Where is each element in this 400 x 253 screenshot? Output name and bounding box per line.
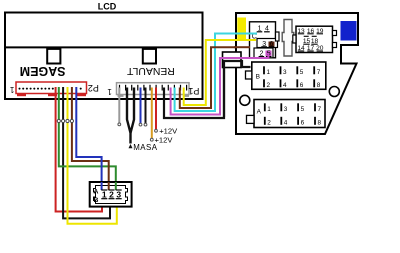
svg-text:3: 3 [116,190,121,200]
C right tab [276,32,280,41]
svg-text:6: 6 [300,82,304,89]
13-20 left tab [293,35,296,43]
connector P1 body (grey) [117,83,190,95]
wire red +12V stub [155,88,157,130]
P1 mounting tabs grey [118,95,124,97]
wire brown P2 to bottom plug top [72,87,109,190]
B pins row1 [264,66,314,74]
wire blue P2 to bottom plug top [76,87,101,190]
wire magenta P1 to car pin C5 [171,53,269,115]
bottom plug pin bars [101,190,121,199]
svg-text:P2: P2 [88,83,99,93]
wire orange +12V stub [151,88,153,139]
wire black P1 to car connector [164,61,250,118]
svg-text:SAGEM: SAGEM [20,64,66,78]
bottom plug wires into top: blue brown green [101,182,103,190]
yellow key insert [237,18,246,41]
svg-text:1: 1 [267,106,271,113]
svg-text:LCD: LCD [98,2,117,12]
middle key piece [282,20,294,57]
C row 3-6 box [257,39,278,48]
svg-text:7: 7 [317,69,321,76]
svg-text:B: B [94,197,99,204]
LCD mounting square left [47,49,60,64]
svg-text:2: 2 [267,82,271,89]
car connector outline [236,13,358,134]
wire grey P1 stub [118,88,120,124]
svg-text:6: 6 [301,120,305,127]
svg-text:+12V: +12V [155,135,174,144]
svg-text:+12V: +12V [159,127,178,136]
A pins row1 [265,103,315,111]
svg-text:B: B [256,74,260,81]
wire black P2 to bottom plug bottom [63,87,110,218]
P1 pin ticks [120,85,187,91]
svg-text:1: 1 [102,190,107,200]
wire black end jog to B section [224,61,251,117]
bottom plug outer box [90,182,132,207]
pin C6 brown termination [269,42,275,47]
svg-text:8: 8 [318,120,322,127]
wire green P2 to bottom plug top [59,87,116,190]
svg-text:4: 4 [283,82,287,89]
wire brown P1 to car pin C6 [180,47,250,108]
svg-text:2: 2 [267,120,271,127]
svg-text:P1: P1 [188,86,199,96]
connector B section box [252,62,326,89]
svg-text:5: 5 [301,106,305,113]
A pins row2 [265,117,315,125]
B pins row2 [264,79,314,87]
screw hole right [329,87,339,97]
connector P2 body (red) [16,82,87,94]
svg-text:1: 1 [9,85,14,94]
B left tab [246,71,252,79]
wire cyan end inside connector [234,33,257,35]
pins 15 18 row [304,35,317,37]
wire cyan P1 to car pin C3 [175,34,257,112]
svg-text:A: A [257,109,262,116]
svg-text:1: 1 [267,69,271,76]
splice circles on P2 wires [57,119,73,122]
MASA ground triangle [129,144,133,148]
P2 pin dots [19,88,82,90]
svg-text:3: 3 [284,106,288,113]
LCD unit outline [5,13,203,100]
wire magenta end to pin C5 [220,53,268,58]
blue key insert [341,21,357,41]
wire black P1 stub [145,88,147,124]
C row 2-5 box [254,48,273,58]
wire black MASA pair Y [127,88,131,144]
P2 mounting tabs red [17,94,26,97]
svg-text:RENAULT: RENAULT [126,65,174,76]
connector C section outer box [250,22,276,58]
svg-text:2: 2 [109,190,114,200]
LCD inner shelf line [5,46,203,48]
svg-text:A: A [94,189,99,196]
connector pins 13-20 box [296,26,333,52]
svg-text:7: 7 [318,106,322,113]
wire yellow P2 to bottom plug bottom [68,87,117,224]
C wire entry tab on left edge [223,52,242,68]
wire brown end inside connector [234,46,250,48]
wire red P2 to bottom plug [56,87,102,212]
A left tab [247,115,255,123]
svg-text:5: 5 [300,69,304,76]
screw hole left [240,95,250,105]
13-20 right tabs [333,31,337,36]
svg-text:8: 8 [317,82,321,89]
bottom plug inner shape [94,186,128,204]
connector A section box [254,100,325,128]
wire yellow P1 to car connector [184,40,256,105]
svg-text:4: 4 [284,120,288,127]
svg-text:3: 3 [283,69,287,76]
LCD mounting square right [143,49,156,64]
wire yellow end inside connector [234,39,256,41]
pin C5 magenta termination [266,51,272,57]
wire blue P1 stub [140,88,142,124]
svg-text:1: 1 [107,87,112,96]
